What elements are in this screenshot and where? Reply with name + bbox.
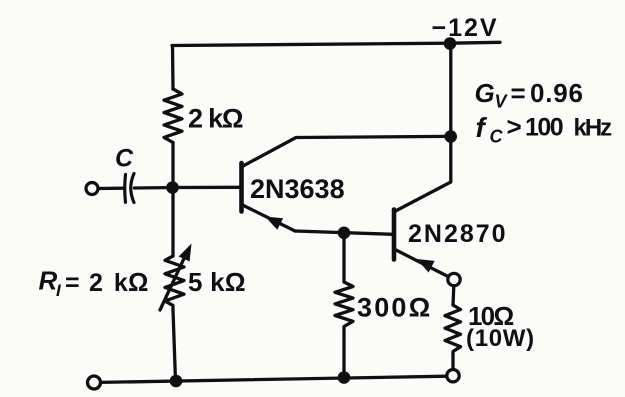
- junction dot: collector node: [444, 130, 457, 143]
- Q1 collector wire up to supply node: [243, 136, 447, 166]
- wire: 2k resistor to input node: [171, 143, 174, 188]
- svg-text:0.96: 0.96: [530, 78, 584, 108]
- svg-text:5 kΩ: 5 kΩ: [188, 267, 246, 297]
- wire: 5k resistor to bottom rail: [173, 310, 176, 381]
- svg-text:300Ω: 300Ω: [357, 293, 433, 323]
- svg-text:kHz: kHz: [574, 115, 613, 142]
- resistor 10 ohm: [445, 305, 461, 354]
- svg-text:=: =: [511, 78, 526, 108]
- svg-text:=: =: [65, 269, 80, 297]
- svg-text:V: V: [495, 92, 509, 112]
- resistor 300 ohm: [335, 282, 353, 330]
- wire: Q1 emitter to Q2 base: [295, 231, 393, 234]
- svg-text:G: G: [475, 78, 495, 108]
- svg-text:2 kΩ: 2 kΩ: [188, 104, 243, 134]
- junction dot: emitter/base node: [338, 227, 351, 240]
- svg-text:f: f: [476, 112, 488, 143]
- wire: terminal to 10 ohm resistor: [451, 286, 455, 305]
- svg-text:100: 100: [525, 114, 563, 142]
- node dot: input node: [166, 181, 179, 194]
- wire: input terminal to capacitor: [99, 187, 123, 191]
- capacitor C: [123, 175, 127, 203]
- wire: rail down to 2k resistor: [171, 46, 175, 90]
- wire: -12V supply rail: [172, 42, 500, 45]
- Q2 emitter arrow (PNP): [417, 259, 435, 273]
- input terminal circle: [86, 183, 98, 195]
- transistor Q1 2N3638 base bar: [239, 163, 244, 212]
- resistor R 2k ohm: [164, 89, 182, 143]
- wire: node down to 300 ohm resistor: [342, 238, 345, 282]
- junction dot bottom left branch: [170, 375, 183, 388]
- Q2 emitter wire: [396, 250, 449, 277]
- svg-text:I: I: [56, 281, 62, 300]
- svg-text:−12V: −12V: [432, 14, 499, 42]
- svg-text:>: >: [507, 112, 522, 142]
- wire: capacitor to input node: [135, 186, 168, 190]
- terminal circle bottom left: [88, 376, 101, 389]
- svg-text:R: R: [39, 266, 58, 296]
- junction node dot on supply rail: [444, 37, 457, 50]
- svg-text:(10W): (10W): [466, 325, 535, 352]
- wire: input node down to 5k variable resistor: [171, 188, 174, 256]
- wire: 10 ohm to bottom terminal: [451, 354, 454, 369]
- emitter terminal circle: [448, 273, 460, 285]
- wire: bottom rail: [101, 376, 448, 382]
- variable resistor 5k ohm: [165, 256, 184, 310]
- svg-text:2 k: 2 k: [89, 269, 130, 297]
- svg-text:C: C: [115, 145, 134, 173]
- svg-text:C: C: [490, 127, 504, 147]
- transistor Q2 2N2870 base bar: [392, 210, 397, 260]
- output terminal circle bottom right: [447, 370, 459, 382]
- wire: base of Q1: [177, 186, 240, 189]
- Q1 emitter wire: [243, 205, 296, 231]
- Q1 emitter arrow (PNP): [265, 217, 283, 230]
- svg-text:2N3638: 2N3638: [250, 174, 345, 204]
- wire: 300 ohm to bottom rail: [342, 330, 345, 372]
- Q2 collector wire up to supply rail: [396, 40, 451, 211]
- svg-text:2N2870: 2N2870: [408, 220, 508, 248]
- arrow of variable resistor: [160, 252, 187, 310]
- junction dot bottom 300 ohm: [338, 371, 351, 384]
- svg-text:Ω: Ω: [128, 269, 148, 297]
